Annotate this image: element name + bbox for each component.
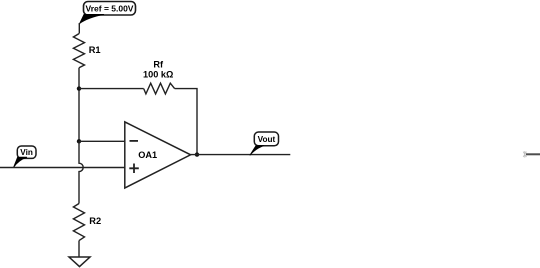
wire clipped at far right — [526, 153, 540, 155]
node terminal mark far right — [523, 151, 526, 158]
op-amp OA1 — [125, 122, 191, 188]
callout Vout — [250, 132, 279, 155]
wire inverting input — [79, 140, 125, 142]
wire R1 to node — [78, 68, 80, 142]
resistor R1 — [73, 34, 100, 68]
resistor R2 — [73, 204, 101, 241]
svg-text:Rf: Rf — [153, 60, 164, 70]
svg-text:100 kΩ: 100 kΩ — [143, 70, 173, 80]
wire Vref to R1 — [78, 23, 80, 34]
svg-text:Vref = 5.00V: Vref = 5.00V — [86, 4, 134, 14]
callout Vin — [13, 146, 36, 168]
wire Rf to feedback corner — [175, 89, 197, 155]
ground — [69, 257, 90, 267]
callout Vref = 5.00V — [80, 2, 136, 24]
svg-text:R2: R2 — [89, 216, 101, 226]
resistor Rf 100 kOhm — [143, 60, 175, 94]
wire vertical with hop over Vin wire — [79, 141, 83, 203]
svg-text:Vout: Vout — [258, 135, 276, 144]
svg-text:Vin: Vin — [20, 148, 33, 157]
wire Vin input — [0, 167, 125, 169]
node junction inverting tap — [77, 139, 81, 143]
wire output — [191, 154, 291, 156]
svg-text:R1: R1 — [89, 45, 101, 55]
svg-text:OA1: OA1 — [138, 150, 157, 160]
node junction output — [195, 152, 199, 156]
wire node to Rf — [79, 88, 144, 90]
wire R2 to ground — [78, 241, 80, 257]
node junction feedback tap — [77, 86, 81, 90]
